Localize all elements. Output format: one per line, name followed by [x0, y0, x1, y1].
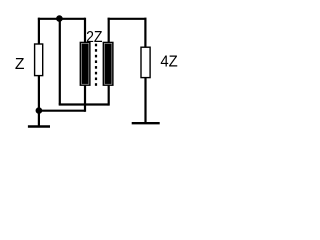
- wire: vertical drop from node A: [59, 18, 61, 105]
- wire: Z bottom lead down to ground: [38, 76, 40, 126]
- transformer U1: primary winding (filled bar with inner outline): [80, 42, 90, 85]
- wire: secondary top lead: [108, 18, 110, 43]
- ground: left ground bar: [28, 125, 50, 127]
- wire: 4Z bottom lead down to ground: [144, 77, 146, 123]
- wire: primary bottom lead: [84, 85, 86, 112]
- wire: primary top lead: [84, 18, 86, 43]
- wire: top-left horizontal (Z top to primary top): [38, 18, 85, 20]
- resistor 4Z (open box): [141, 47, 150, 77]
- wire: 4Z top lead: [144, 18, 146, 47]
- wire: lower horizontal from drop to secondary bottom: [59, 103, 109, 105]
- wire: bottom horizontal from node B to primary bottom: [39, 110, 85, 112]
- svg-text:4Z: 4Z: [160, 53, 178, 70]
- transformer U1: secondary winding (filled bar with inner outline): [103, 42, 113, 85]
- node B: junction dot bottom left: [36, 107, 43, 114]
- wire: secondary bottom lead: [108, 85, 110, 106]
- svg-text:Z: Z: [15, 56, 25, 73]
- transformer U1: core dotted line: [95, 44, 97, 86]
- svg-text:2Z: 2Z: [86, 29, 103, 46]
- ground: right ground bar: [132, 122, 160, 124]
- wire: Z top lead: [38, 18, 40, 44]
- node A: junction dot on top wire: [56, 15, 63, 22]
- wire: top-right horizontal (secondary top to 4Z top): [108, 18, 147, 20]
- resistor Z (open box): [35, 44, 43, 76]
